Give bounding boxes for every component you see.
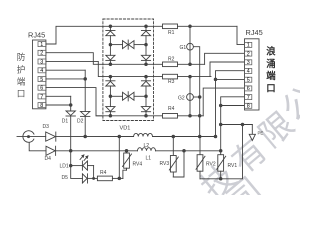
node bridge2 mid junctions	[109, 95, 112, 98]
node pe branch T	[219, 123, 222, 126]
svg-text:D1: D1	[62, 118, 69, 124]
bridge 2 bottom rail wire	[96, 115, 163, 117]
svg-text:护: 护	[17, 63, 26, 74]
inductor L1	[138, 148, 156, 151]
G1 gas discharge tube	[187, 26, 194, 64]
bridge2 right bottom diode	[141, 96, 150, 116]
PE ground symbol	[249, 125, 255, 141]
right fan: rail1 to pin1	[237, 26, 245, 44]
svg-text:L1: L1	[146, 156, 152, 162]
bridge2 TVS middle wires	[110, 95, 122, 97]
right fan: rail3 to pin3	[210, 62, 245, 77]
svg-text:D2: D2	[77, 118, 84, 124]
wire pin5 stub	[46, 78, 85, 80]
svg-text:RJ45: RJ45	[246, 28, 263, 37]
diode D4	[46, 146, 56, 155]
svg-text:端: 端	[266, 70, 276, 81]
diode D1	[66, 111, 75, 116]
inductor L2	[134, 133, 153, 136]
node D2 ground	[84, 135, 87, 138]
wire pin2 to rail2	[46, 53, 103, 65]
node pin8 join	[219, 104, 222, 107]
svg-text:5: 5	[40, 77, 43, 83]
node RV3 row2	[183, 150, 186, 153]
svg-text:G1: G1	[180, 45, 187, 51]
left RJ45 pin numbers	[40, 42, 43, 109]
wire G2 tap	[193, 96, 199, 98]
diode D3	[46, 132, 56, 141]
svg-text:防: 防	[17, 51, 26, 62]
LED LD1	[71, 155, 94, 179]
TVS bidirectional diode bridge2	[123, 92, 135, 101]
node R4b gnd join	[118, 177, 121, 180]
bridge2 right top diode	[141, 77, 150, 97]
wire D2 vertical	[84, 70, 86, 111]
wire D1 vertical	[70, 96, 72, 111]
resistor R4 bottom	[97, 176, 123, 181]
node bridge1 rail junctions	[109, 25, 112, 28]
node LD1 anode join	[93, 177, 95, 179]
VD1 dashed box	[103, 19, 154, 121]
svg-text:4: 4	[40, 68, 43, 74]
node bridge2 rail junctions	[109, 75, 112, 78]
svg-text:D5: D5	[62, 175, 69, 181]
svg-text:3: 3	[247, 60, 250, 66]
TVS bidirectional diode bridge1	[123, 40, 135, 49]
bridge1 right top diode	[141, 26, 150, 44]
svg-text:6: 6	[247, 86, 250, 92]
svg-text:LD1: LD1	[60, 164, 69, 170]
resistor R2	[163, 62, 205, 67]
right fan: rail4 to pin6	[203, 88, 244, 116]
node RV1 bottom	[219, 178, 222, 181]
node RV1 top	[219, 150, 222, 153]
wire pin7 chain	[221, 97, 245, 151]
bridge1 left bottom diode	[106, 45, 115, 65]
wire row1 from D3	[56, 136, 134, 138]
wire G chain down	[199, 97, 201, 137]
svg-text:RV2: RV2	[206, 162, 216, 168]
right RJ45 connector J2	[245, 39, 260, 110]
node pin8-D1 junction	[69, 104, 72, 107]
node pin5-D2 junction	[84, 78, 87, 81]
node RV3 top row1	[172, 135, 175, 138]
coax connector P1	[17, 131, 46, 151]
wire pin6 to rail4	[46, 88, 103, 116]
svg-text:VD1: VD1	[120, 126, 131, 132]
varistor RV3	[169, 137, 184, 178]
svg-text:2: 2	[40, 51, 43, 57]
wire row1 after L2	[153, 136, 216, 138]
node bridge1 mid junctions	[109, 43, 112, 46]
bridge2 left bottom diode	[106, 96, 115, 116]
varistor RV4	[123, 151, 132, 170]
left RJ45 connector J1	[33, 40, 46, 109]
G2 gas discharge tube	[187, 77, 194, 116]
svg-text:D3: D3	[43, 124, 50, 130]
svg-text:口: 口	[17, 88, 26, 98]
bridge 1 top rail wire	[103, 25, 163, 27]
svg-text:2: 2	[247, 51, 250, 57]
bridge1 left top diode	[106, 26, 115, 44]
bridge1 right bottom diode	[141, 45, 150, 65]
resistor R3	[163, 74, 212, 79]
node G tap join	[198, 96, 201, 99]
wire ground drop from row1	[118, 137, 120, 179]
wire row2 after L1	[156, 150, 221, 152]
wire pin1 to rail1	[46, 26, 103, 44]
svg-text:R1: R1	[168, 30, 175, 36]
right fan: pins 4,5 vertical	[216, 71, 245, 137]
varistor RV1	[217, 151, 226, 179]
wire pe branch to bus	[221, 124, 253, 126]
wire pin8 stub	[221, 105, 245, 107]
node row1 gnd drop	[118, 135, 121, 138]
svg-text:1: 1	[247, 43, 250, 49]
diode D5	[82, 174, 97, 183]
wire netA down	[71, 151, 83, 179]
right RJ45 pin numbers	[247, 43, 250, 110]
svg-text:7: 7	[247, 95, 250, 101]
wire pin7 to D1 chain	[46, 95, 71, 97]
wire pin8 stub	[46, 104, 71, 106]
svg-text:6: 6	[40, 86, 43, 92]
node G chain rail4	[198, 115, 201, 118]
varistor RV2	[196, 137, 205, 179]
svg-text:RV4: RV4	[133, 162, 143, 168]
svg-text:4: 4	[247, 69, 250, 75]
wire pin3 to rail3	[46, 61, 103, 76]
bridge1 TVS middle wires	[110, 44, 122, 46]
svg-text:8: 8	[247, 104, 250, 110]
svg-text:R3: R3	[168, 79, 175, 85]
bridge 1 bottom rail wire	[103, 63, 163, 65]
wire pin5 stub	[216, 78, 245, 80]
wire G1 tap	[193, 47, 199, 97]
wire R4b to RV4 bottom	[123, 168, 127, 178]
node netA row2	[69, 150, 72, 153]
svg-text:1: 1	[40, 42, 43, 48]
node pins45 row1 gnd	[214, 135, 217, 138]
node bus top corner	[241, 123, 244, 126]
svg-text:R4: R4	[168, 106, 175, 112]
svg-text:G2: G2	[178, 96, 185, 102]
resistor R4 column	[163, 114, 204, 119]
bridge2 left top diode	[106, 77, 115, 97]
svg-text:5: 5	[247, 77, 250, 83]
node G chain row1	[198, 135, 201, 138]
防护端口 left port label	[17, 51, 26, 98]
svg-text:R4: R4	[100, 170, 107, 176]
node G1 top	[189, 25, 192, 28]
svg-text:涌: 涌	[266, 58, 275, 69]
svg-text:RV1: RV1	[228, 163, 238, 169]
wire D2 to row1	[84, 116, 86, 136]
node G2 bottom	[189, 115, 192, 118]
svg-text:7: 7	[40, 94, 43, 100]
node pin5 join	[214, 78, 217, 81]
wire pin4 to D2 chain	[46, 69, 85, 71]
浪涌端口 right port label	[266, 46, 276, 94]
svg-text:RV3: RV3	[160, 161, 170, 167]
svg-text:R2: R2	[168, 57, 175, 63]
svg-text:D4: D4	[45, 156, 52, 162]
svg-text:PE: PE	[258, 131, 264, 136]
wire D1 to row2	[70, 116, 72, 151]
resistor R1	[163, 24, 238, 29]
node G2 top	[189, 75, 192, 78]
node G1 bottom	[189, 63, 192, 66]
bridge 2 top rail wire	[103, 76, 163, 78]
svg-text:8: 8	[40, 103, 43, 109]
wire bottom bus	[200, 125, 243, 179]
svg-text:口: 口	[266, 82, 275, 93]
watermark	[194, 79, 320, 220]
node RV4 top	[125, 150, 128, 153]
diode D2	[81, 111, 90, 116]
svg-text:RJ45: RJ45	[28, 31, 45, 40]
svg-text:端: 端	[17, 76, 26, 87]
svg-text:浪: 浪	[266, 46, 276, 57]
node LD1 branch	[69, 164, 72, 167]
right fan: rail2 to pin2	[205, 53, 245, 64]
wire row2 from D4	[56, 150, 138, 152]
svg-text:3: 3	[40, 59, 43, 65]
